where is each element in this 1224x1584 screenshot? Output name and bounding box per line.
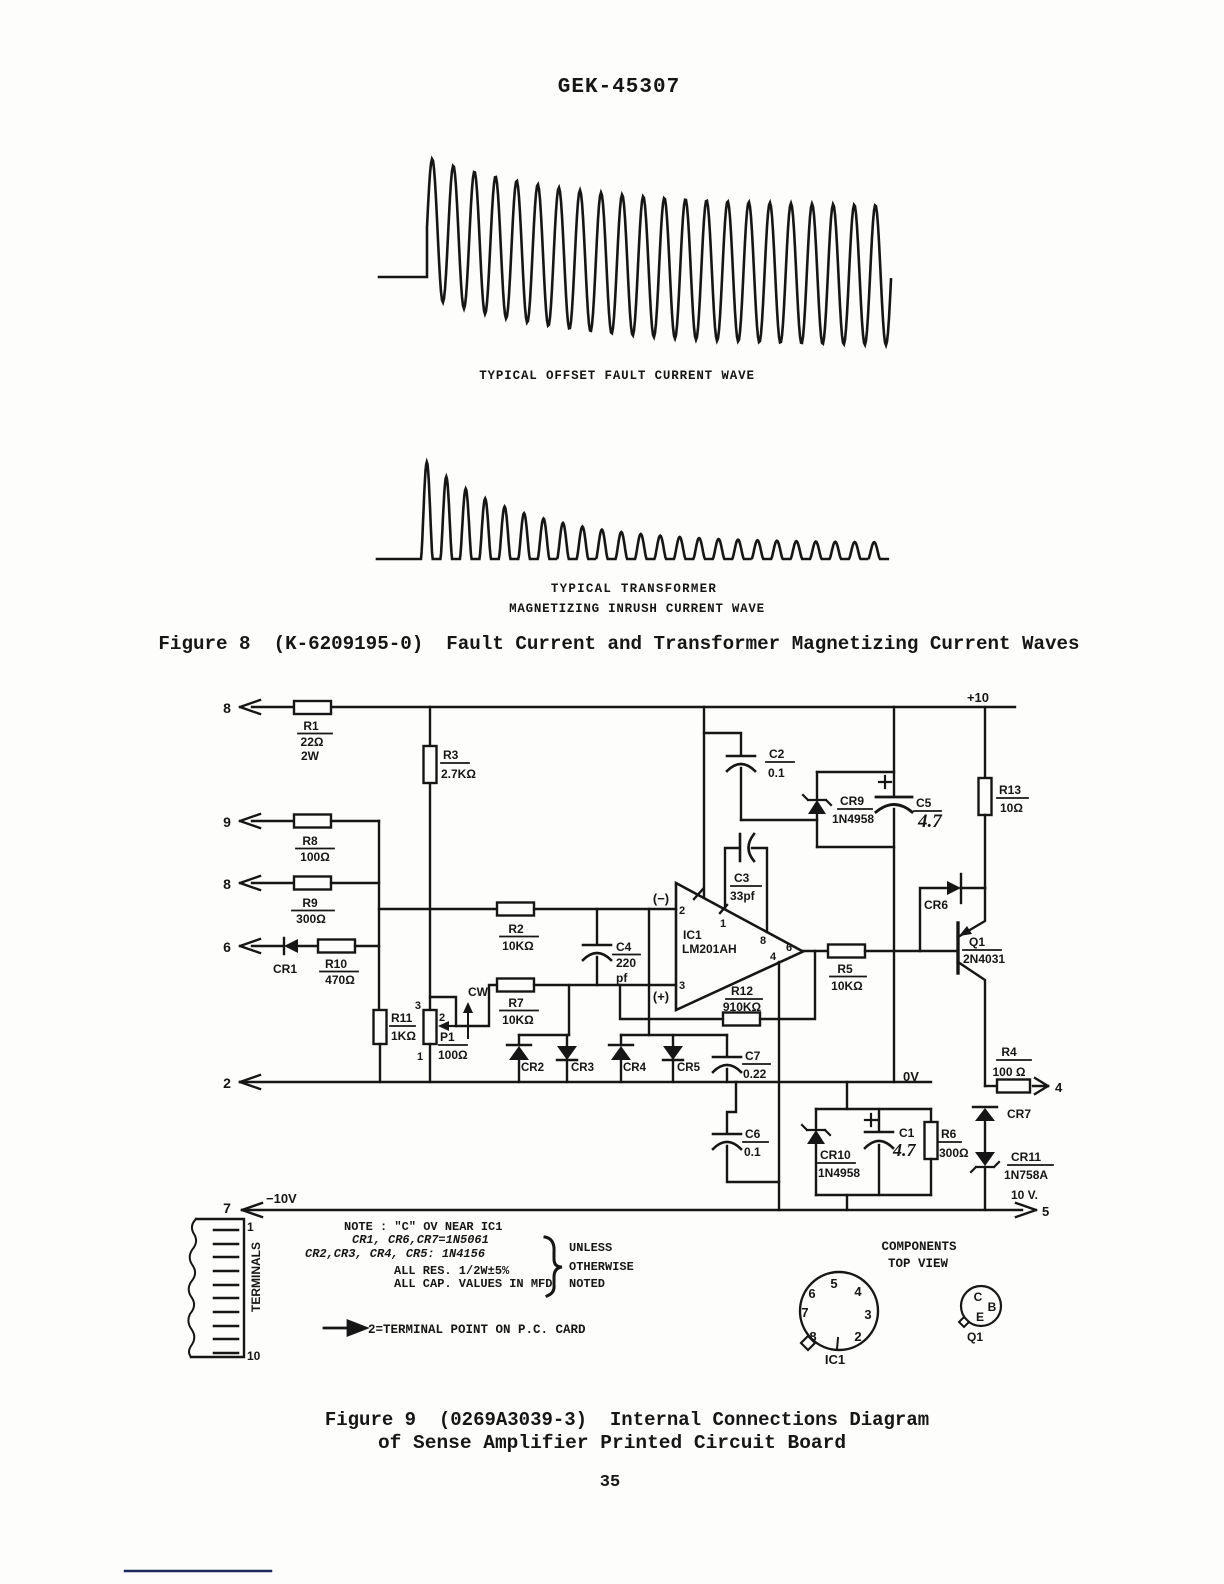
wire CR10 box stub to -10V — [846, 1195, 848, 1210]
svg-text:470Ω: 470Ω — [325, 973, 355, 987]
svg-text:COMPONENTS: COMPONENTS — [881, 1240, 957, 1254]
wire R9 to left bus — [331, 882, 379, 884]
wire Q1 collector branch to R4 — [985, 1085, 997, 1087]
svg-text:300Ω: 300Ω — [939, 1146, 969, 1160]
transistor Q1 2N4031 — [958, 888, 1005, 1086]
wire op-amp pin 4 to -10V — [778, 962, 780, 1210]
wire op-amp output to Q1 base — [803, 950, 828, 952]
svg-text:R5: R5 — [837, 962, 853, 976]
wire R12 jog — [620, 985, 723, 1019]
svg-text:1N4958: 1N4958 — [832, 812, 874, 826]
svg-text:4: 4 — [1055, 1080, 1063, 1095]
capacitor C2 — [704, 733, 794, 820]
-10V right arrow terminal 5 — [1016, 1203, 1049, 1219]
resistor R1 — [294, 701, 332, 763]
svg-text:9: 9 — [223, 814, 231, 830]
svg-text:2N4031: 2N4031 — [963, 952, 1005, 966]
svg-text:10KΩ: 10KΩ — [502, 1013, 534, 1027]
svg-text:3: 3 — [679, 980, 685, 992]
svg-text:C: C — [974, 1290, 983, 1304]
svg-text:2: 2 — [439, 1012, 445, 1024]
resistor R5 — [828, 945, 866, 994]
diode CR4 — [609, 1035, 647, 1082]
svg-text:5: 5 — [1042, 1204, 1049, 1219]
wire P1 tap tie (3 to 2) — [430, 997, 456, 1026]
svg-text:4: 4 — [770, 951, 777, 963]
svg-text:1KΩ: 1KΩ — [391, 1029, 416, 1043]
svg-text:TERMINALS: TERMINALS — [249, 1242, 263, 1312]
diode CR3 — [557, 1035, 594, 1082]
svg-text:0V: 0V — [903, 1069, 919, 1084]
wire CR10 box top edge — [816, 1108, 931, 1110]
svg-text:0.1: 0.1 — [744, 1145, 761, 1159]
diode CR6 — [920, 874, 985, 951]
svg-text:CR6: CR6 — [924, 898, 948, 912]
svg-text:C2: C2 — [769, 747, 785, 761]
wire P1 bottom to 0V — [429, 1044, 431, 1082]
svg-text:22Ω: 22Ω — [301, 735, 324, 749]
svg-text:B: B — [988, 1300, 997, 1314]
IC1 package top view — [800, 1272, 878, 1367]
svg-text:ALL RES. 1/2W±5%: ALL RES. 1/2W±5% — [394, 1264, 510, 1278]
svg-text:R8: R8 — [302, 834, 318, 848]
resistor R3 — [424, 746, 477, 783]
Q1 package top view — [959, 1286, 1001, 1344]
svg-text:P1: P1 — [440, 1030, 455, 1044]
wire C2 to CR9 — [741, 819, 817, 821]
svg-text:C3: C3 — [734, 871, 750, 885]
svg-text:0.1: 0.1 — [768, 766, 785, 780]
svg-text:8: 8 — [760, 935, 766, 947]
wire CR9 box top edge — [817, 771, 894, 773]
svg-text:10: 10 — [247, 1349, 261, 1363]
capacitor C1 — [865, 1109, 917, 1195]
fault current waveform — [379, 159, 891, 345]
wire +10 rail down to C5 — [893, 707, 895, 796]
svg-text:100 Ω: 100 Ω — [993, 1065, 1026, 1079]
wire terminal 9 to R8 — [252, 820, 294, 822]
zener CR10 — [802, 1109, 860, 1195]
wire inverting input (R2 row) — [379, 908, 497, 910]
svg-text:R7: R7 — [508, 996, 524, 1010]
zener CR11 — [971, 1121, 1053, 1210]
svg-text:3: 3 — [864, 1307, 871, 1322]
note brace — [545, 1237, 562, 1296]
svg-text:7: 7 — [801, 1305, 808, 1320]
svg-text:CR5: CR5 — [677, 1062, 701, 1074]
svg-text:4: 4 — [854, 1284, 862, 1299]
wire R11 to 0V — [379, 1044, 381, 1082]
wire CR10 box bottom edge — [816, 1194, 931, 1196]
svg-text:10 V.: 10 V. — [1011, 1188, 1038, 1202]
svg-text:R3: R3 — [443, 748, 459, 762]
svg-text:2: 2 — [223, 1075, 231, 1091]
svg-text:2=TERMINAL POINT ON P.C. CARD: 2=TERMINAL POINT ON P.C. CARD — [368, 1323, 586, 1337]
svg-text:R2: R2 — [508, 922, 524, 936]
svg-text:2: 2 — [679, 905, 685, 917]
svg-text:CR11: CR11 — [1011, 1150, 1041, 1164]
svg-text:1: 1 — [247, 1220, 254, 1234]
svg-text:10KΩ: 10KΩ — [831, 979, 863, 993]
svg-text:1N4958: 1N4958 — [818, 1166, 860, 1180]
terminal 8 arrow (top) — [223, 700, 260, 716]
svg-text:33pf: 33pf — [730, 889, 756, 903]
wire left bus vertical — [378, 821, 380, 1010]
svg-text:R1: R1 — [303, 719, 319, 733]
wire CR9 box bottom edge — [817, 846, 894, 848]
svg-text:Q1: Q1 — [967, 1330, 983, 1344]
wire CR4/CR5 top bus — [621, 1034, 727, 1036]
wire C5 down to 0V — [893, 809, 895, 1082]
svg-text:910KΩ: 910KΩ — [723, 1000, 762, 1014]
wire R3 branch vertical (rail to P1) — [429, 707, 431, 1010]
wire terminal 6 to CR1 — [252, 945, 284, 947]
wire input bridge vertical — [648, 909, 650, 1035]
svg-text:R11: R11 — [391, 1011, 413, 1025]
wire junction down to CR2/CR3 pair — [568, 985, 570, 1035]
svg-text:R9: R9 — [302, 896, 318, 910]
wire pin7 to +10 rail — [703, 707, 705, 897]
svg-text:R10: R10 — [325, 957, 347, 971]
resistor R9 — [292, 877, 334, 927]
wire R5 to Q1 base — [865, 950, 957, 952]
svg-text:UNLESS: UNLESS — [569, 1241, 612, 1255]
svg-text:R4: R4 — [1001, 1045, 1017, 1059]
P1 wiper arrow — [448, 1025, 456, 1027]
wire R2 to op-amp pin 2 — [534, 908, 676, 910]
pin 1 tick — [720, 905, 727, 913]
pin 7 tick — [694, 889, 703, 899]
svg-text:8: 8 — [223, 700, 231, 716]
capacitor C7 — [713, 1035, 770, 1082]
resistor R8 — [294, 815, 334, 865]
wire 0V to CR10 box — [846, 1082, 848, 1109]
svg-text:E: E — [976, 1310, 984, 1324]
svg-text:NOTED: NOTED — [569, 1277, 605, 1291]
terminal 9 arrow — [223, 814, 260, 830]
svg-text:R6: R6 — [941, 1127, 957, 1141]
terminal 6 arrow — [223, 939, 260, 955]
svg-text:CR7: CR7 — [1007, 1107, 1031, 1121]
svg-text:35: 35 — [600, 1473, 620, 1492]
svg-text:CR1, CR6,CR7=1N5061: CR1, CR6,CR7=1N5061 — [352, 1233, 489, 1247]
svg-text:IC1: IC1 — [683, 928, 702, 942]
svg-text:CR1: CR1 — [273, 962, 297, 976]
wire CR1 to R10 — [298, 945, 318, 947]
svg-text:2W: 2W — [301, 749, 320, 763]
capacitor C6 — [713, 1082, 779, 1182]
resistor R13 — [979, 707, 1029, 888]
svg-text:C4: C4 — [616, 940, 632, 954]
svg-text:Q1: Q1 — [969, 935, 985, 949]
svg-text:100Ω: 100Ω — [438, 1048, 468, 1062]
svg-text:OTHERWISE: OTHERWISE — [569, 1260, 634, 1274]
bottom left rule — [125, 1570, 271, 1573]
diode CR7 — [973, 1107, 1031, 1121]
wire R8 to left bus — [331, 820, 379, 822]
terminal 7 arrow — [223, 1200, 262, 1217]
svg-text:1N758A: 1N758A — [1004, 1168, 1048, 1182]
wire CR2/CR3 top bus — [519, 1034, 569, 1036]
svg-text:10Ω: 10Ω — [1000, 801, 1023, 815]
svg-text:300Ω: 300Ω — [296, 912, 326, 926]
svg-text:1: 1 — [720, 918, 726, 930]
svg-text:7: 7 — [223, 1200, 231, 1216]
svg-text:6: 6 — [223, 939, 231, 955]
resistor R6 — [925, 1109, 970, 1195]
svg-text:TYPICAL TRANSFORMER: TYPICAL TRANSFORMER — [551, 582, 717, 596]
svg-text:CR2: CR2 — [521, 1062, 544, 1074]
capacitor C4 — [583, 909, 640, 985]
svg-text:LM201AH: LM201AH — [682, 942, 737, 956]
svg-text:3: 3 — [415, 1000, 421, 1012]
svg-text:NOTE : "C" OV NEAR IC1: NOTE : "C" OV NEAR IC1 — [344, 1220, 502, 1234]
+10V top rail wire — [252, 706, 1015, 708]
resistor R11 — [374, 1010, 417, 1044]
svg-text:0.22: 0.22 — [743, 1067, 767, 1081]
svg-text:Figure 9 (0269A3039-3) Inter: Figure 9 (0269A3039-3) Internal Connecti… — [325, 1409, 929, 1431]
svg-text:6: 6 — [786, 942, 792, 954]
resistor R4 — [993, 1045, 1031, 1093]
svg-text:pf: pf — [616, 971, 628, 985]
svg-text:C7: C7 — [745, 1049, 761, 1063]
svg-text:R12: R12 — [731, 984, 753, 998]
svg-text:GEK-45307: GEK-45307 — [558, 76, 680, 99]
svg-text:CR9: CR9 — [840, 794, 864, 808]
terminal 8 arrow (second) — [223, 876, 260, 892]
0V bus wire — [240, 1081, 931, 1083]
capacitor C3 — [725, 834, 767, 932]
resistor R2 — [497, 903, 538, 954]
svg-text:Figure 8 (K-6209195-0) Fault: Figure 8 (K-6209195-0) Fault Current and… — [158, 633, 1079, 655]
svg-text:IC1: IC1 — [825, 1352, 845, 1367]
inrush current waveform — [377, 462, 888, 559]
svg-text:+10: +10 — [967, 690, 989, 705]
wire terminal 8 to R9 — [252, 882, 294, 884]
svg-text:10KΩ: 10KΩ — [502, 939, 534, 953]
svg-text:R13: R13 — [999, 783, 1021, 797]
svg-text:TYPICAL OFFSET FAULT CURRENT W: TYPICAL OFFSET FAULT CURRENT WAVE — [479, 369, 755, 383]
svg-text:100Ω: 100Ω — [300, 850, 330, 864]
resistor R7 — [497, 979, 538, 1028]
svg-text:of Sense Amplifier Printed Cir: of Sense Amplifier Printed Circuit Board — [378, 1432, 846, 1454]
potentiometer P1 — [415, 1000, 468, 1063]
wire wiper to R7 — [456, 985, 497, 1026]
-10V bus wire — [242, 1209, 1022, 1211]
svg-text:CW: CW — [468, 985, 489, 999]
diode CR5 — [663, 1035, 701, 1082]
wire R12 to output node — [760, 951, 815, 1019]
svg-text:(−): (−) — [653, 891, 669, 906]
svg-text:4.7: 4.7 — [892, 1140, 917, 1160]
zener CR9 — [803, 772, 874, 847]
svg-text:8: 8 — [223, 876, 231, 892]
diode CR1 — [273, 938, 298, 976]
terminal 4 arrow — [1033, 1078, 1063, 1095]
svg-text:5: 5 — [830, 1276, 837, 1291]
svg-text:CR3: CR3 — [571, 1062, 594, 1074]
svg-text:MAGNETIZING INRUSH CURRENT WAV: MAGNETIZING INRUSH CURRENT WAVE — [509, 602, 765, 616]
capacitor C5 — [876, 776, 943, 832]
svg-text:C1: C1 — [899, 1126, 915, 1140]
svg-text:TOP VIEW: TOP VIEW — [888, 1257, 949, 1271]
svg-text:CR10: CR10 — [820, 1148, 851, 1162]
diode CR2 — [507, 1035, 544, 1082]
svg-text:2: 2 — [854, 1329, 861, 1344]
resistor R12 — [723, 984, 762, 1026]
resistor R10 — [318, 940, 358, 988]
svg-text:4.7: 4.7 — [917, 811, 943, 832]
svg-text:6: 6 — [808, 1286, 815, 1301]
legend terminal-point arrow — [324, 1321, 366, 1335]
svg-text:(+): (+) — [653, 989, 669, 1004]
svg-text:220: 220 — [616, 956, 636, 970]
wire R10 to left bus — [355, 945, 379, 947]
op-amp U1 LM201AH — [653, 883, 803, 1010]
svg-text:2.7KΩ: 2.7KΩ — [441, 767, 476, 781]
svg-text:ALL CAP. VALUES IN MFD: ALL CAP. VALUES IN MFD — [394, 1277, 552, 1291]
svg-text:−10V: −10V — [266, 1191, 297, 1206]
svg-text:C6: C6 — [745, 1127, 761, 1141]
svg-text:CR2,CR3, CR4, CR5: 1N4156: CR2,CR3, CR4, CR5: 1N4156 — [305, 1247, 485, 1261]
svg-text:1: 1 — [417, 1051, 423, 1063]
svg-text:C5: C5 — [916, 796, 932, 810]
CW arrow — [463, 985, 489, 1038]
terminals block — [188, 1219, 263, 1363]
wire R7 to op-amp pin 3 — [534, 984, 676, 986]
terminal 2 arrow — [223, 1075, 260, 1091]
svg-text:CR4: CR4 — [623, 1062, 647, 1074]
